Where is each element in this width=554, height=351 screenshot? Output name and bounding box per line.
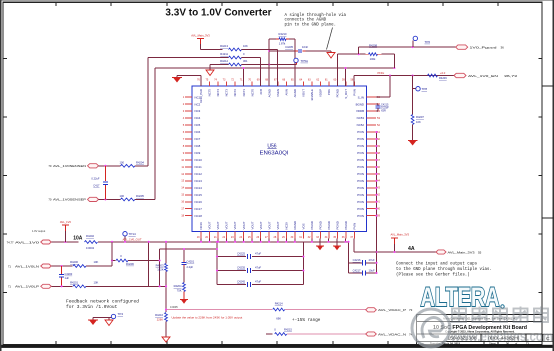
svg-text:10uF: 10uF: [369, 268, 375, 272]
svg-text:C4235: C4235: [237, 266, 245, 270]
svg-text:AVL_VDAC_P: AVL_VDAC_P: [378, 308, 406, 312]
svg-text:AVL_1V0LN: AVL_1V0LN: [15, 264, 39, 268]
svg-text:NC18: NC18: [195, 214, 203, 218]
svg-text:PGND: PGND: [310, 221, 314, 229]
svg-text:100: 100: [120, 194, 125, 198]
svg-text:TP8: TP8: [422, 87, 428, 91]
svg-text:3.3V to 1.0V Converter: 3.3V to 1.0V Converter: [165, 8, 271, 19]
svg-text:C4216: C4216: [353, 258, 361, 262]
svg-text:R4202: R4202: [86, 234, 94, 238]
svg-text:VOS: VOS: [302, 223, 306, 229]
svg-text:VOUT: VOUT: [208, 221, 212, 229]
svg-text:C4225: C4225: [237, 252, 245, 256]
svg-text:NC14: NC14: [195, 186, 203, 190]
svg-text:AVL_1V0LP: AVL_1V0LP: [15, 285, 39, 289]
svg-text:2.2pF: 2.2pF: [187, 265, 194, 269]
svg-text:NC15: NC15: [195, 193, 203, 197]
svg-text:NC11: NC11: [195, 165, 203, 169]
svg-text:AGND: AGND: [293, 89, 297, 97]
svg-text:PGND: PGND: [344, 221, 348, 229]
svg-text:to the GND plane through multi: to the GND plane through multiple vias.: [396, 267, 492, 272]
svg-text:R4209: R4209: [439, 76, 447, 80]
svg-text:R4205: R4205: [136, 194, 144, 198]
svg-text:R4215: R4215: [284, 328, 292, 332]
svg-text:PVIN: PVIN: [357, 200, 364, 204]
svg-text:PVIN: PVIN: [357, 207, 364, 211]
svg-text:PVIN: PVIN: [357, 137, 364, 141]
svg-text:VOUT: VOUT: [250, 221, 254, 229]
svg-text:71: 71: [8, 264, 12, 268]
svg-text:NC4: NC4: [195, 116, 201, 120]
svg-text:0.22uF: 0.22uF: [91, 177, 99, 181]
svg-text:NC8: NC8: [195, 144, 201, 148]
svg-text:13: 13: [181, 179, 184, 183]
svg-text:VDDP: VDDP: [319, 89, 323, 97]
svg-text:PVIN: PVIN: [357, 193, 364, 197]
svg-text:NC74: NC74: [216, 89, 220, 97]
svg-text:55: 55: [478, 251, 482, 255]
svg-text:AVL_VDAC_N: AVL_VDAC_N: [378, 332, 406, 336]
svg-text:X5R: X5R: [381, 110, 386, 113]
svg-text:R4206: R4206: [126, 262, 134, 266]
svg-text:NC16: NC16: [195, 200, 203, 204]
svg-text:52: 52: [377, 123, 380, 127]
svg-text:16: 16: [181, 200, 184, 204]
svg-text:C417: C417: [93, 184, 100, 188]
svg-text:R4216: R4216: [155, 313, 163, 317]
svg-text:NC70: NC70: [250, 89, 254, 97]
svg-text:S_IN: S_IN: [358, 95, 364, 99]
svg-text:AVL_1V0: AVL_1V0: [15, 240, 40, 244]
svg-text:AVIN: AVIN: [284, 89, 288, 96]
svg-text:PVIN: PVIN: [357, 179, 364, 183]
svg-text:69K: 69K: [276, 317, 281, 321]
svg-text:NC7: NC7: [195, 137, 201, 141]
svg-text:PVIN: PVIN: [357, 165, 364, 169]
svg-text:VDDB: VDDB: [356, 109, 364, 113]
svg-text:NC10: NC10: [195, 158, 203, 162]
svg-text:10K: 10K: [243, 44, 248, 48]
svg-text:R4213: R4213: [220, 44, 228, 48]
svg-text:PGND: PGND: [336, 89, 340, 97]
svg-text:VSEN: VSEN: [276, 89, 280, 97]
svg-text:100: 100: [120, 160, 125, 164]
svg-text:VOUT: VOUT: [225, 221, 229, 229]
svg-text:10K: 10K: [416, 120, 421, 124]
svg-text:PVIN: PVIN: [357, 151, 364, 155]
svg-text:AVL_Main_3V3: AVL_Main_3V3: [448, 251, 475, 255]
svg-text:R4200: R4200: [70, 260, 78, 264]
svg-text:10nF: 10nF: [302, 45, 308, 49]
svg-text:PGND: PGND: [336, 221, 340, 229]
svg-text:ENABLE: ENABLE: [310, 89, 314, 100]
svg-text:R4210: R4210: [279, 32, 287, 36]
svg-text:for 3.3Vin /1.0Vout: for 3.3Vin /1.0Vout: [66, 304, 118, 310]
svg-text:R4214: R4214: [275, 301, 283, 305]
svg-text:NC12: NC12: [195, 172, 203, 176]
svg-text:AVL_1V0_OUT: AVL_1V0_OUT: [123, 238, 142, 242]
svg-text:70: 70: [48, 164, 52, 168]
svg-text:1V0_Pgood: 1V0_Pgood: [470, 46, 498, 50]
svg-text:PVIN: PVIN: [353, 223, 357, 230]
svg-text:36: 36: [501, 46, 505, 50]
svg-text:POK: POK: [327, 89, 331, 95]
svg-text:R4211: R4211: [220, 52, 228, 56]
svg-text:4A: 4A: [408, 246, 415, 252]
svg-text:(Please see the Gerber files.): (Please see the Gerber files.): [396, 272, 470, 277]
svg-text:Connect the input and output c: Connect the input and output caps: [396, 262, 478, 267]
svg-text:NC19: NC19: [199, 222, 203, 230]
svg-text:BGND: BGND: [356, 102, 364, 106]
svg-text:VOUT: VOUT: [259, 221, 263, 229]
svg-text:C4200: C4200: [65, 272, 73, 276]
svg-text:47uF: 47uF: [255, 280, 261, 284]
svg-text:PVIN: PVIN: [357, 130, 364, 134]
svg-text:162K: 162K: [157, 267, 163, 271]
svg-text:NC3: NC3: [195, 109, 201, 113]
svg-text:R4203: R4203: [156, 263, 164, 267]
svg-text:TP4: TP4: [118, 312, 124, 316]
svg-text:47uF: 47uF: [369, 258, 375, 262]
svg-text:C4245: C4245: [237, 280, 245, 284]
svg-text:10K: 10K: [94, 280, 99, 284]
svg-text:AVL_1V0_EN: AVL_1V0_EN: [468, 74, 498, 78]
svg-text:VOUT: VOUT: [216, 221, 220, 229]
svg-text:TP6: TP6: [425, 40, 431, 44]
svg-text:NC29: NC29: [284, 222, 288, 230]
svg-text:C4205: C4205: [285, 45, 293, 49]
svg-text:1uF: 1uF: [65, 276, 70, 280]
svg-text:PVIN: PVIN: [357, 186, 364, 190]
svg-text:AVL_1V0SENSEP: AVL_1V0SENSEP: [53, 198, 86, 202]
svg-text:VOUT: VOUT: [302, 89, 306, 97]
svg-text:PVIN: PVIN: [357, 144, 364, 148]
svg-text:PVIN: PVIN: [353, 89, 357, 96]
svg-text:connects the AGND: connects the AGND: [285, 18, 327, 23]
svg-text:R4212: R4212: [220, 59, 228, 63]
svg-text:AVL_1V0SENSEN: AVL_1V0SENSEN: [53, 164, 86, 168]
svg-text:GND_PAD: GND_PAD: [199, 89, 203, 103]
svg-text:RGND: RGND: [293, 221, 297, 230]
svg-text:NC53: NC53: [357, 116, 365, 120]
svg-text:C4217: C4217: [353, 268, 361, 272]
svg-text:73: 73: [409, 308, 413, 312]
svg-text:NC9: NC9: [195, 151, 201, 155]
svg-text:VOUT: VOUT: [233, 221, 237, 229]
svg-text:NC71: NC71: [242, 89, 246, 97]
svg-text:10K: 10K: [94, 260, 99, 264]
svg-text:NC13: NC13: [195, 179, 203, 183]
svg-text:AGND: AGND: [267, 89, 271, 97]
svg-text:1.87k: 1.87k: [279, 41, 286, 45]
svg-text:PGND: PGND: [319, 221, 323, 229]
svg-text:PVIN: PVIN: [357, 172, 364, 176]
svg-text:1.0V output: 1.0V output: [32, 229, 46, 233]
svg-text:Feedback network configured: Feedback network configured: [66, 298, 139, 304]
svg-text:14: 14: [181, 186, 184, 190]
svg-text:VOUT: VOUT: [242, 221, 246, 229]
svg-text:R4204: R4204: [174, 284, 182, 288]
svg-text:NC6: NC6: [195, 130, 201, 134]
svg-text:EN63A0QI: EN63A0QI: [260, 151, 289, 157]
svg-text:VOUT: VOUT: [276, 221, 280, 229]
svg-text:A single through-hole via: A single through-hole via: [285, 13, 347, 18]
svg-text:53: 53: [377, 116, 380, 120]
svg-text:AVL_Main_3V3: AVL_Main_3V3: [391, 232, 410, 236]
svg-text:301: 301: [243, 59, 248, 63]
svg-text:S_OUT: S_OUT: [344, 89, 348, 99]
svg-text:70: 70: [48, 198, 52, 202]
svg-text:36,73: 36,73: [504, 74, 518, 78]
svg-text:PGND: PGND: [327, 221, 331, 229]
svg-text:18: 18: [181, 214, 184, 218]
svg-text:47uF: 47uF: [255, 266, 261, 270]
svg-text:+0.0: +0.0: [440, 71, 446, 75]
svg-text:PFDx: PFDx: [378, 71, 385, 75]
svg-text:NC72: NC72: [233, 89, 237, 97]
svg-text:15: 15: [181, 193, 184, 197]
svg-text:R4201: R4201: [70, 280, 78, 284]
svg-text:17: 17: [181, 207, 184, 211]
svg-text:ALTERA: ALTERA: [421, 282, 500, 312]
svg-text:R4207: R4207: [416, 115, 424, 119]
svg-text:PVIN: PVIN: [357, 158, 364, 162]
svg-text:NC17: NC17: [195, 207, 203, 211]
svg-text:TP14: TP14: [129, 232, 137, 236]
svg-text:C4201: C4201: [187, 260, 195, 264]
svg-text:12: 12: [181, 172, 184, 176]
svg-text:AVL_1V0: AVL_1V0: [60, 220, 72, 224]
svg-text:47uF: 47uF: [255, 252, 261, 256]
svg-text:pin to the GND plane.: pin to the GND plane.: [285, 22, 337, 27]
svg-text:VOUT: VOUT: [267, 221, 271, 229]
svg-text:TP5A: TP5A: [301, 59, 309, 63]
svg-text:0.0005: 0.0005: [170, 306, 178, 309]
svg-text:10: 10: [181, 158, 184, 162]
svg-text:NC73: NC73: [225, 89, 229, 97]
svg-text:71: 71: [8, 285, 12, 289]
svg-text:NC52: NC52: [357, 123, 365, 127]
svg-text:0.0002: 0.0002: [86, 246, 95, 250]
svg-text:75K: 75K: [177, 288, 182, 292]
svg-text:AVL_Main_3V3: AVL_Main_3V3: [191, 33, 210, 37]
svg-text:PVIN: PVIN: [357, 214, 364, 218]
svg-text:www.elecfans.com: www.elecfans.com: [450, 328, 553, 344]
svg-text:Update the value to 226K from: Update the value to 226K from 243K for 1…: [172, 316, 243, 320]
svg-text:10A: 10A: [73, 236, 83, 242]
svg-text:R4204: R4204: [136, 161, 144, 165]
svg-text:+-15% range: +-15% range: [292, 318, 321, 323]
svg-text:NC5: NC5: [195, 123, 201, 127]
svg-text:100k: 100k: [370, 57, 376, 61]
svg-text:NC75: NC75: [208, 89, 212, 97]
svg-text:XFB: XFB: [259, 89, 263, 95]
svg-text:U56: U56: [267, 144, 276, 150]
svg-text:226K: 226K: [157, 318, 163, 322]
svg-text:74,77: 74,77: [7, 240, 14, 244]
